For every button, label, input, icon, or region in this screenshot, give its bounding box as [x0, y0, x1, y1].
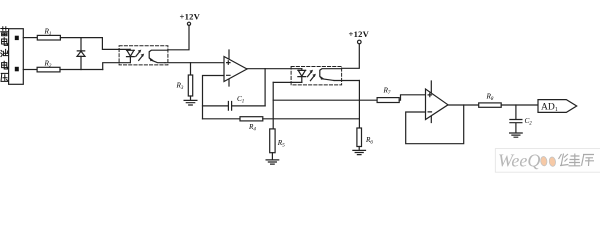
resistor R2 [37, 67, 60, 72]
wire R2 to corner [60, 69, 103, 71]
wire R4 rail [203, 118, 241, 120]
op-amp U2 [224, 50, 247, 86]
ground (R3) [184, 100, 197, 105]
svg-text:+12V: +12V [180, 11, 201, 21]
resistor R6 [357, 128, 362, 147]
svg-text:R5: R5 [277, 139, 285, 149]
output flag AD1 [538, 100, 577, 113]
wire emitter U3 to right vertical [334, 80, 359, 82]
wire op-amp U4 feedback loop [406, 105, 464, 144]
optocoupler U3 light arrows [308, 70, 316, 81]
resistor R5 [270, 129, 275, 153]
wire step-up into optocoupler U1 cathode [103, 63, 130, 70]
池 [1, 49, 8, 56]
optocoupler U1 phototransistor [149, 50, 168, 63]
ground (R6) [353, 150, 366, 154]
wire R3 to ground [190, 96, 192, 100]
diode D1 [77, 38, 85, 70]
wire op-amp U4 output [448, 104, 479, 106]
svg-text:R7: R7 [383, 87, 391, 97]
label 蓄电池电压 (battery voltage, drawn strokes) [1, 27, 8, 82]
ground (C2) [510, 133, 523, 137]
optocoupler U3 LED [298, 69, 306, 83]
resistor R3 [188, 75, 192, 96]
watermark oo (orange) [540, 156, 547, 166]
svg-text:WeeQ: WeeQ [498, 151, 540, 171]
op-amp U4 [426, 81, 449, 123]
optocoupler U3 phototransistor [320, 69, 342, 81]
wire R1 to corner [60, 37, 102, 39]
battery input terminal box [9, 29, 24, 85]
svg-text:C1: C1 [237, 95, 244, 105]
wire LED U3 cathode down and left [273, 81, 302, 83]
watermark 维库 (drawn strokes) [559, 154, 595, 167]
optocoupler U1 light arrows [136, 50, 144, 61]
svg-text:+12V: +12V [349, 29, 370, 39]
wire ladder right vertical [358, 81, 360, 129]
resistor R8 [479, 103, 502, 107]
wire output down to C1 [264, 69, 266, 106]
battery terminal top [15, 36, 19, 40]
capacitor C2 [510, 105, 522, 133]
svg-text:R3: R3 [176, 82, 184, 92]
wire R6 to ground [358, 147, 360, 151]
wire ladder left vertical [272, 82, 274, 128]
watermark WeeQoo weiku [495, 149, 600, 173]
svg-text:R8: R8 [486, 93, 494, 103]
电 [2, 38, 8, 46]
wire R4 to ladder bottom rail [263, 118, 360, 120]
wire R8 to AD1 [501, 104, 538, 106]
wire op-amp U2 output [247, 68, 302, 70]
+12V supply 1 [168, 22, 191, 50]
resistor R4 [240, 117, 263, 121]
wire R5 to ground [271, 153, 273, 160]
resistor R7 [377, 98, 399, 103]
svg-text:R6: R6 [365, 136, 373, 146]
压 [1, 73, 8, 81]
svg-text:R4: R4 [248, 123, 256, 133]
svg-text:C2: C2 [525, 117, 533, 127]
optocoupler U3 dashed box [291, 67, 342, 85]
ground (R5) [266, 160, 279, 164]
wire R7 to op-amp U4 + input [399, 95, 425, 100]
wire step-down into optocoupler U1 anode [102, 38, 130, 50]
wire middle rail to R7 [273, 99, 377, 101]
蓄 [1, 27, 8, 36]
+12V supply 2 [342, 40, 362, 68]
wire battery top to R1 [23, 37, 37, 39]
wire battery bottom to R2 [23, 69, 37, 71]
battery terminal bottom [15, 67, 19, 72]
wire op-amp U2 - input to feedback [203, 76, 225, 119]
capacitor C1 [203, 102, 266, 111]
wire down to R3 [190, 63, 192, 75]
wire emitter U1 to op-amp U2 + input [165, 62, 224, 64]
电 [2, 61, 8, 69]
optocoupler U1 LED [127, 49, 135, 62]
optocoupler U1 dashed box [119, 46, 168, 65]
resistor R1 [37, 35, 60, 40]
